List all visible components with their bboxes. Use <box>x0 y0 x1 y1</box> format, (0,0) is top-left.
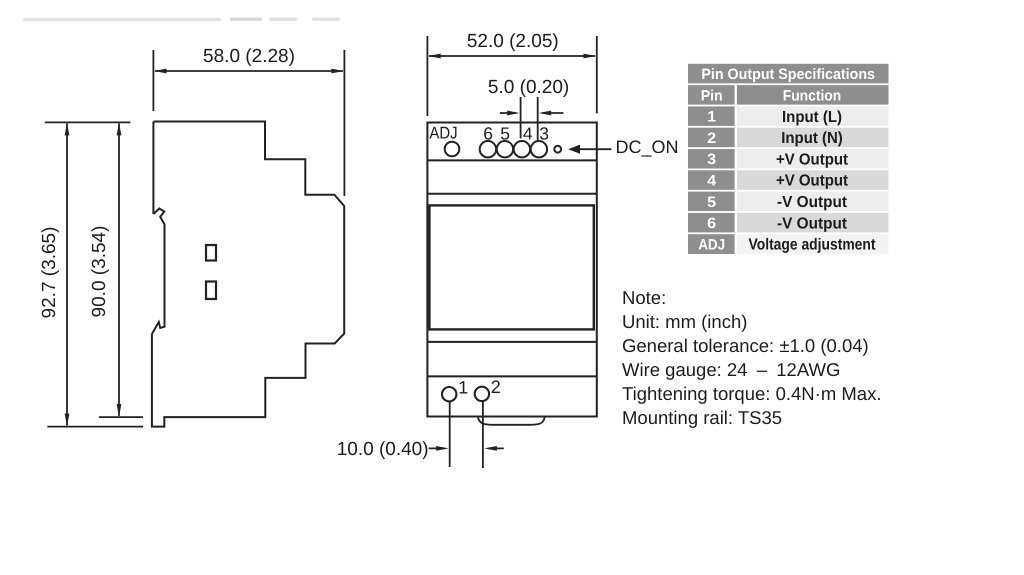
dim 52.0 left extension line <box>426 36 428 116</box>
row ADJ function cell: Voltage adjustment <box>737 234 889 254</box>
svg-text:4: 4 <box>707 173 717 190</box>
pin strip bottom line <box>427 159 596 161</box>
vertical dims top tick <box>45 121 131 123</box>
dim 90.0 bottom tick <box>99 416 143 418</box>
dim 90.0 dimension line <box>118 124 120 417</box>
svg-text:1: 1 <box>458 377 468 397</box>
svg-text:3: 3 <box>707 151 716 168</box>
pin 3 circle <box>531 141 547 157</box>
faint header smudge bar 1 <box>23 18 221 21</box>
svg-text:Pin Output Specifications: Pin Output Specifications <box>701 66 875 83</box>
dim 92.7 top arrowhead <box>65 123 70 135</box>
svg-text:DC_ON: DC_ON <box>616 137 679 157</box>
pin 5 circle <box>497 141 513 157</box>
dim 90.0 bottom arrowhead <box>117 404 122 417</box>
dim 58.0 left arrowhead <box>154 69 167 74</box>
svg-text:2: 2 <box>491 377 501 397</box>
svg-text:5.0 (0.20): 5.0 (0.20) <box>488 77 569 98</box>
svg-text:2: 2 <box>707 130 716 147</box>
svg-text:Pin: Pin <box>701 87 723 104</box>
svg-text:4: 4 <box>523 123 533 143</box>
faint header smudge bar 2 <box>230 18 262 22</box>
svg-text:ADJ: ADJ <box>698 236 725 253</box>
vent slot upper <box>206 245 216 261</box>
svg-text:Voltage adjustment: Voltage adjustment <box>749 237 877 254</box>
ADJ potentiometer circle <box>445 142 460 157</box>
pin 4 circle <box>514 141 530 157</box>
row 3 pin cell <box>688 149 735 169</box>
table subheader Pin <box>688 85 735 105</box>
lower section line 1 <box>427 341 596 343</box>
svg-text:1: 1 <box>707 109 716 126</box>
table header: Pin Output Specifications <box>688 64 889 84</box>
dim 58.0 right arrowhead <box>331 69 344 74</box>
dim 10.0 right extension line <box>482 402 484 469</box>
svg-text:Input (N): Input (N) <box>781 130 843 147</box>
svg-text:-V Output: -V Output <box>777 215 848 232</box>
row 1 function cell: Input (L) <box>737 106 889 126</box>
dim 90.0 top arrowhead <box>117 123 122 135</box>
svg-text:90.0 (3.54): 90.0 (3.54) <box>89 226 110 318</box>
dim 10.0 left extension line <box>449 402 451 467</box>
row 6 function cell: -V Output <box>737 213 889 233</box>
faint header smudge bar 4 <box>312 18 340 22</box>
dim 10.0 left arrow line <box>429 447 445 449</box>
row 3 function cell: +V Output <box>737 149 889 169</box>
DC_ON arrowhead <box>568 145 580 154</box>
dim 58.0 left extension line <box>152 50 154 111</box>
dim 5.0 right extension line (pin3) <box>537 97 539 140</box>
row 5 function cell: -V Output <box>737 192 889 212</box>
svg-text:ADJ: ADJ <box>429 124 457 143</box>
row 1 pin cell <box>688 106 735 126</box>
vent slot lower <box>206 282 216 300</box>
DC_ON LED circle <box>554 146 561 153</box>
label square <box>429 205 593 329</box>
svg-text:-V Output: -V Output <box>777 194 848 211</box>
row ADJ pin cell <box>688 234 735 254</box>
dim 92.7 bottom tick <box>47 426 143 428</box>
svg-text:General tolerance: ±1.0 (0.04): General tolerance: ±1.0 (0.04) <box>622 335 869 356</box>
front view body <box>427 123 596 417</box>
svg-text:Wire gauge: 24 – 12AWG: Wire gauge: 24 – 12AWG <box>622 359 840 380</box>
row 6 pin cell <box>688 213 735 233</box>
svg-text:Mounting rail: TS35: Mounting rail: TS35 <box>622 407 782 428</box>
svg-text:Unit: mm (inch): Unit: mm (inch) <box>622 311 747 332</box>
DIN clip lower hook <box>152 322 165 334</box>
dim 5.0 right arrow line <box>543 112 564 114</box>
svg-text:Input (L): Input (L) <box>782 109 842 126</box>
dim 5.0 right arrowhead <box>539 111 552 116</box>
side view left edge upper segment <box>152 122 154 215</box>
pin 1 circle (bottom) <box>442 387 456 401</box>
dim 92.7 dimension line <box>66 124 68 426</box>
pin 6 circle <box>480 141 496 157</box>
svg-text:+V Output: +V Output <box>776 151 849 168</box>
svg-text:Function: Function <box>783 87 842 104</box>
table subheader Function <box>737 85 889 105</box>
dim 10.0 right arrowhead <box>484 446 497 451</box>
svg-text:+V Output: +V Output <box>776 173 849 190</box>
svg-text:Tightening torque: 0.4N·m Max.: Tightening torque: 0.4N·m Max. <box>622 383 881 404</box>
svg-text:92.7 (3.65): 92.7 (3.65) <box>39 227 60 319</box>
dim 5.0 left extension line (pin4) <box>520 97 522 138</box>
svg-text:5: 5 <box>707 194 716 211</box>
dim 58.0 dimension line <box>155 70 343 72</box>
DC_ON arrow line <box>578 148 611 150</box>
dim 10.0 left arrowhead <box>436 446 449 451</box>
dim 52.0 left arrowhead <box>428 54 441 59</box>
svg-text:6: 6 <box>707 215 716 232</box>
pin 2 circle (bottom) <box>475 387 489 401</box>
row 2 function cell: Input (N) <box>737 128 889 148</box>
dim 58.0 right extension line <box>343 50 345 196</box>
dim 52.0 dimension line <box>429 55 595 57</box>
row 4 pin cell <box>688 170 735 190</box>
svg-text:10.0 (0.40): 10.0 (0.40) <box>337 439 429 460</box>
dim 52.0 right extension line <box>596 36 598 113</box>
row 2 pin cell <box>688 128 735 148</box>
DIN clip upper hook <box>153 209 164 326</box>
dim 10.0 right arrow line <box>488 447 504 449</box>
dim 5.0 left arrowhead <box>507 111 519 116</box>
bottom arc tab <box>478 418 545 425</box>
svg-text:52.0 (2.05): 52.0 (2.05) <box>467 31 559 52</box>
row 5 pin cell <box>688 192 735 212</box>
side view body outline <box>152 122 344 427</box>
svg-text:58.0 (2.28): 58.0 (2.28) <box>203 46 295 67</box>
row 4 function cell: +V Output <box>737 170 889 190</box>
faint header smudge bar 3 <box>269 18 297 22</box>
svg-text:Note:: Note: <box>622 287 666 308</box>
upper section line <box>427 193 596 195</box>
dim 5.0 left arrow line <box>500 112 516 114</box>
lower section line 2 <box>427 375 596 377</box>
dim 52.0 right arrowhead <box>584 54 597 59</box>
dim 92.7 bottom arrowhead <box>65 414 70 427</box>
